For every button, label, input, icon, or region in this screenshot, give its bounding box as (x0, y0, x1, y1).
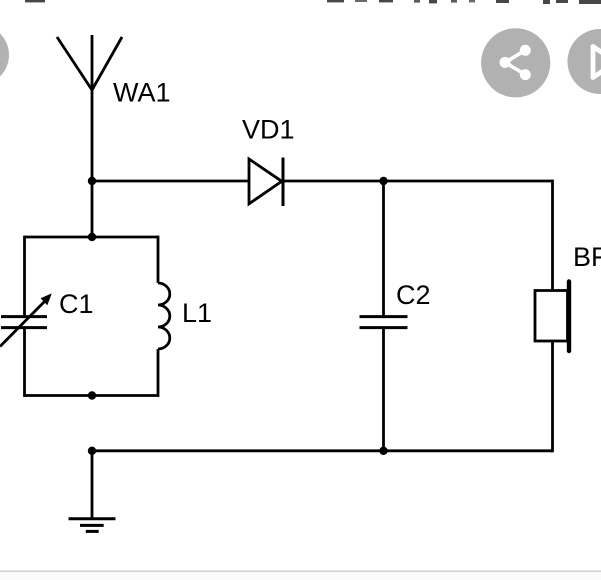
play button (partial at right edge) (568, 29, 601, 94)
svg-text:C2: C2 (396, 280, 431, 310)
share button (481, 28, 550, 97)
wire: ground stem (91, 451, 94, 519)
wire: right vertical lower (551, 341, 554, 452)
wire: junction to diode anode (92, 180, 250, 183)
bottom divider line (0, 570, 601, 572)
svg-text:L1: L1 (182, 298, 212, 328)
svg-text:C1: C1 (59, 289, 94, 319)
junction dot C (tank top) (88, 233, 96, 241)
svg-text:WA1: WA1 (113, 77, 171, 107)
junction dot B (top wire/C2) (379, 177, 387, 185)
tank circuit rectangle wires (25, 236, 159, 397)
svg-text:BF1: BF1 (573, 242, 601, 272)
wire: diode cathode to right corner (283, 180, 553, 183)
capacitor C1 (variable) (0, 293, 52, 346)
junction dot D (tank bottom) (88, 391, 96, 399)
junction dot A (antenna/top wire) (88, 177, 96, 185)
left partial gray button (0, 25, 9, 85)
junction dot E (bottom rail/ground) (88, 447, 96, 455)
capacitor C2 (360, 181, 408, 451)
cropped header text remnants (25, 0, 601, 4)
svg-text:VD1: VD1 (242, 114, 295, 144)
junction dot F (bottom rail/C2) (379, 447, 387, 455)
diode VD1 (249, 158, 283, 207)
speaker BF1 (535, 282, 569, 352)
inductor L1 (158, 283, 170, 349)
wire: right vertical upper (551, 180, 554, 291)
ground (69, 519, 116, 532)
wire: bottom rail (92, 449, 553, 452)
antenna WA1 (57, 35, 122, 237)
